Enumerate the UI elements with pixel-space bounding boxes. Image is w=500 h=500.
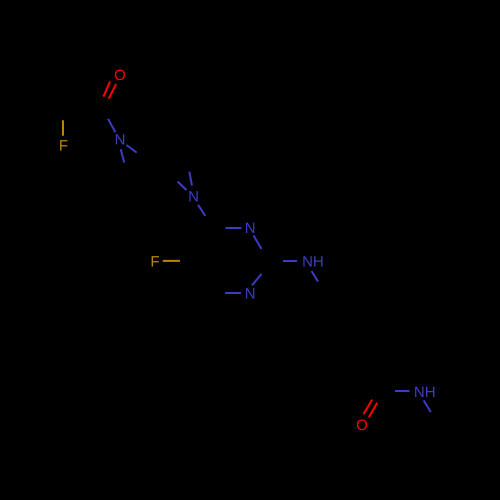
bond N1p-C6 (pyrimidine bottom edge, blue half) — [225, 292, 241, 294]
bond C(O)-N1 (carbonyl to amide N, blue half) — [108, 119, 115, 132]
svg-text:N: N — [115, 131, 126, 148]
svg-text:NH: NH — [414, 384, 436, 401]
bond N1-CH2b (ring bond B, blue half) — [121, 149, 125, 162]
bond C=O double (benzamide carbonyl, line 2) — [369, 403, 377, 418]
bond C4-N3 (pyrimidine top edge, blue half) — [226, 227, 242, 229]
svg-text:O: O — [114, 67, 126, 84]
svg-text:N: N — [188, 189, 199, 206]
bond C=O double (acyl carbonyl, line 1) — [103, 81, 110, 96]
bond NH-C1ar (to benzene ring, blue half) — [312, 271, 319, 282]
svg-text:N: N — [245, 286, 256, 303]
bond N2-C4 (to pyrimidine, blue half) — [198, 205, 205, 216]
svg-text:F: F — [150, 253, 159, 270]
svg-text:O: O — [356, 417, 368, 434]
bond C2-NH (anilino link, blue half) — [283, 260, 297, 262]
bond C(O)-NH (benzamide N, blue half) — [395, 390, 410, 392]
bond C=O double (acyl carbonyl, line 2) — [109, 84, 116, 99]
bond N2-CH2d (ring bond up-left, blue half) — [178, 182, 187, 191]
bond N3-C2 (pyrimidine, blue half) — [254, 236, 262, 250]
bond N1-CH2a (ring bond A, blue half) — [126, 145, 136, 153]
bond C5-F (pyrimidine fluorine, gold half) — [163, 260, 180, 262]
bond C2-N1p (pyrimidine, blue half) — [252, 274, 262, 285]
bond C-F (alpha carbon to F, gold half) — [62, 120, 64, 135]
svg-text:N: N — [245, 220, 256, 237]
svg-text:F: F — [59, 138, 68, 155]
bond N2-CH2c (ring bond up, blue half) — [189, 172, 192, 186]
bond C=O double (benzamide carbonyl, line 1) — [364, 400, 373, 415]
svg-text:NH: NH — [302, 254, 324, 271]
bond NH-CH3 (N-methyl, blue half) — [424, 400, 431, 412]
